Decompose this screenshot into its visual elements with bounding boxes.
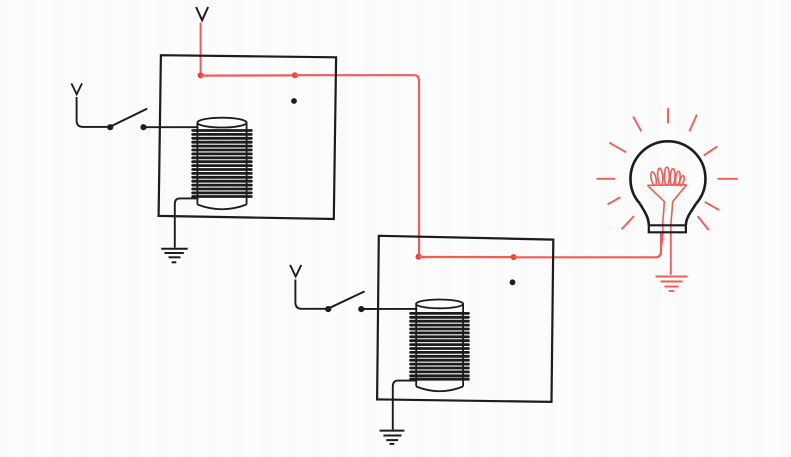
contact terminal box 1 (black dot) [291,98,297,104]
terminal V label (top supply, box 1) [196,7,208,20]
node C (red junction) [416,254,422,260]
ground G3 (lamp, red) [656,277,688,292]
node D (red junction) [511,254,517,260]
wire node D to lamp (red) [514,232,661,257]
coil L1 [193,118,252,210]
lamp DS1 envelope [630,141,705,232]
wire S2 to coil L2 [364,308,418,310]
node B (red junction) [292,72,298,78]
terminal V label (switch supply, box 2) [290,265,301,277]
node A (red junction) [198,72,204,78]
wire V supply to node A (red) [200,23,202,75]
switch S1 [108,109,148,130]
switch S2 [326,291,365,311]
wire L2 to ground [393,381,418,430]
ground G2 [380,431,405,444]
relay box 1 [159,55,337,219]
wire V to switch S2 [295,280,325,309]
wire node A to node B (red) [201,74,295,76]
wire S1 to coil L1 [146,126,199,128]
lamp filament [647,167,686,232]
coil L2 [411,300,469,392]
wire node B to box 2 (red) [295,75,419,255]
wire L1 to ground [175,198,199,247]
wire node C to node D (red) [419,256,514,258]
wire V to switch S1 [77,97,108,127]
ground G1 [161,249,188,263]
terminal V label (left switch supply) [71,83,82,94]
lamp lead wires (red) [661,232,671,274]
light rays [597,108,738,230]
relay box 2 [377,236,553,402]
contact terminal box 2 (black dot) [510,279,516,285]
